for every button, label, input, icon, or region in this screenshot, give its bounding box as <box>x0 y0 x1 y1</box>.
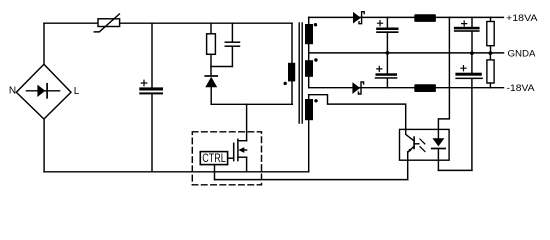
capacitor C4 (+rail output) <box>454 17 480 53</box>
polarity dot S3 <box>314 99 317 102</box>
node: C3/C5 junction on GNDA <box>386 51 390 55</box>
wire: aux winding to optocoupler collector <box>309 95 406 130</box>
transformer T1 secondary winding S2 <box>305 60 313 77</box>
wire: LED cathode return to -rail node <box>438 169 472 171</box>
polarity dot primary <box>284 82 287 85</box>
svg-text:+18VA: +18VA <box>506 13 538 24</box>
optocoupler phototransistor <box>406 129 419 179</box>
node: C4/C6 junction on GNDA <box>470 51 474 55</box>
wire: primary winding top feed <box>291 23 293 63</box>
wire: CTRL feedback pin <box>214 165 216 180</box>
resistor R2 (+rail bleeder) <box>487 17 494 53</box>
bridge rectifier B1 diamond <box>16 64 71 119</box>
wire: drop from top rail to bridge top vertex <box>43 23 45 64</box>
diode D1 (snubber clamp) <box>205 76 217 104</box>
dashed box (control section) <box>192 132 261 185</box>
svg-text:GNDA: GNDA <box>508 48 537 59</box>
optocoupler U2 box <box>400 129 450 160</box>
diode D2 (schottky +rail) <box>353 12 364 24</box>
varistor RV1 <box>94 14 119 32</box>
polarity dot S1 <box>314 23 317 26</box>
transformer T1 primary winding <box>288 63 295 82</box>
wire: -18V bottom rail <box>309 87 504 89</box>
wire: feedback line to optocoupler emitter <box>215 179 408 181</box>
wire: drain node horizontal <box>211 103 292 105</box>
transformer T1 secondary winding S1 <box>305 24 313 44</box>
svg-text:CTRL: CTRL <box>202 151 226 165</box>
wire: primary bottom rail <box>44 171 309 173</box>
wire: opto LED feed from +rail <box>438 17 449 138</box>
optocoupler LED <box>432 138 445 170</box>
capacitor C1 (bulk electrolytic) <box>139 23 163 172</box>
inductor L2 (-rail choke) <box>414 84 436 92</box>
capacitor C2 (snubber) <box>225 23 239 66</box>
wire: secondary stack vertical <box>308 17 310 171</box>
resistor R3 (-rail bleeder) <box>487 53 494 88</box>
svg-text:N: N <box>9 86 16 97</box>
op-amp U1 CTRL box <box>200 151 227 165</box>
resistor R1 (snubber) <box>207 23 216 75</box>
transistor Q1 (MOSFET) <box>228 104 247 172</box>
transformer T1 auxiliary winding S3 <box>305 99 313 120</box>
inductor L1 (+rail choke) <box>414 14 436 22</box>
capacitor C6 (-rail output) <box>455 53 483 170</box>
wire: primary winding bottom to drain node <box>291 81 293 104</box>
node: R2/R3 junction on GNDA <box>489 51 493 55</box>
wire: bridge bottom vertex to bottom rail <box>43 119 45 172</box>
polarity dot S2 <box>314 58 317 61</box>
capacitor C5 (-rail filter) <box>375 53 398 88</box>
diode D3 (schottky -rail) <box>352 82 363 94</box>
wire: primary top rail <box>44 22 292 24</box>
svg-text:L: L <box>74 86 80 97</box>
capacitor C3 (+rail filter) <box>376 17 398 53</box>
diode inside bridge <box>37 85 45 97</box>
optocoupler light arrows <box>420 139 425 152</box>
wire: bridge internal diode line <box>27 90 60 92</box>
transformer core <box>299 23 302 123</box>
wire: +18V top rail <box>309 16 504 18</box>
svg-text:-18VA: -18VA <box>507 83 536 94</box>
wire: snubber R/C junction <box>211 66 232 68</box>
wire: GNDA rail <box>309 52 504 54</box>
